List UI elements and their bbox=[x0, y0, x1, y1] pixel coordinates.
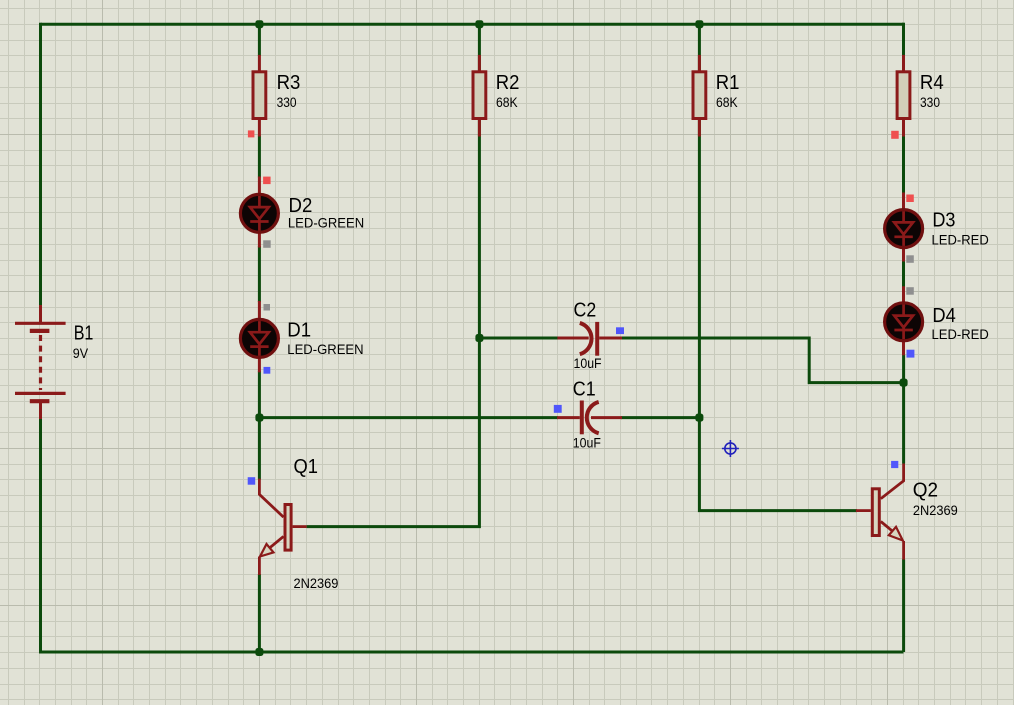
wire C2 right to Q2 collector net bbox=[621, 338, 904, 383]
wire R4 to D3 bbox=[902, 135, 905, 193]
marker grey D3 bottom bbox=[906, 255, 914, 262]
svg-text:LED-RED: LED-RED bbox=[932, 231, 989, 247]
svg-text:2N2369: 2N2369 bbox=[913, 502, 958, 518]
wire bottom rail bbox=[41, 651, 904, 654]
battery B1 bbox=[15, 305, 66, 419]
B1 dashed link bbox=[39, 335, 42, 390]
svg-text:68K: 68K bbox=[496, 94, 518, 110]
svg-text:9V: 9V bbox=[73, 345, 89, 361]
LED D1 bbox=[240, 301, 278, 372]
junction bottom rail Q1 emitter bbox=[255, 648, 263, 656]
B1 cell2 long plate bbox=[15, 392, 66, 395]
LED D2 bbox=[240, 177, 278, 248]
B1 cell1 short plate bbox=[30, 329, 50, 333]
wire Q1 emitter to bottom rail bbox=[258, 574, 261, 652]
marker blue Q1 collector bbox=[248, 477, 256, 485]
wire C1 right bbox=[621, 416, 699, 419]
marker blue C1 bbox=[554, 405, 562, 413]
svg-text:LED-GREEN: LED-GREEN bbox=[287, 341, 363, 357]
svg-text:C2: C2 bbox=[574, 298, 597, 321]
wire D3 to D4 bbox=[902, 260, 905, 287]
svg-text:2N2369: 2N2369 bbox=[294, 575, 339, 591]
resistor R3 bbox=[253, 55, 266, 137]
junction top rail R2 bbox=[475, 20, 483, 28]
marker blue D1 bottom bbox=[264, 367, 271, 374]
junction C1 left bbox=[255, 414, 263, 422]
wire D2 to D1 bbox=[258, 246, 261, 302]
wire R3 to D2 bbox=[258, 136, 261, 178]
svg-text:LED-GREEN: LED-GREEN bbox=[288, 215, 364, 231]
svg-text:D4: D4 bbox=[932, 304, 955, 327]
svg-text:Q2: Q2 bbox=[913, 478, 938, 501]
svg-text:R3: R3 bbox=[277, 71, 301, 94]
marker grey D1 top bbox=[264, 304, 271, 311]
svg-text:D1: D1 bbox=[287, 318, 311, 341]
wire branch1 top (rail to R3) bbox=[258, 24, 261, 56]
wire D4 to Q2 collector bbox=[902, 354, 905, 463]
svg-text:330: 330 bbox=[920, 94, 940, 110]
transistor Q2 bbox=[856, 464, 904, 560]
B1 top pin bbox=[39, 305, 42, 322]
svg-text:R4: R4 bbox=[920, 71, 944, 94]
marker blue C2 bbox=[616, 327, 624, 334]
wire left rail upper bbox=[39, 23, 42, 306]
svg-text:LED-RED: LED-RED bbox=[932, 326, 989, 342]
svg-text:10uF: 10uF bbox=[573, 434, 601, 450]
LED D4 bbox=[885, 286, 923, 355]
wire C2 left bbox=[479, 337, 558, 340]
marker blue Q2 collector bbox=[891, 461, 898, 468]
wire top rail bbox=[41, 23, 904, 26]
svg-text:B1: B1 bbox=[74, 322, 94, 345]
junction top rail R1 bbox=[695, 20, 703, 28]
wire Q2 emitter to bottom rail bbox=[902, 559, 905, 652]
svg-text:Q1: Q1 bbox=[294, 455, 319, 478]
marker red D2 pin bbox=[263, 177, 271, 185]
marker blue D4 bottom bbox=[907, 350, 915, 358]
B1 bottom pin bbox=[39, 402, 42, 419]
wire branch3 R1 vertical and Q2 base bbox=[699, 24, 857, 510]
marker red R3 pin bbox=[248, 130, 255, 137]
transistor Q1 bbox=[259, 479, 306, 575]
LED D3 bbox=[885, 193, 923, 262]
svg-text:R1: R1 bbox=[716, 71, 740, 94]
svg-text:68K: 68K bbox=[716, 94, 738, 110]
marker grey D2 bottom bbox=[263, 240, 271, 248]
wire C1 left bbox=[259, 416, 558, 419]
svg-text:330: 330 bbox=[277, 94, 297, 110]
junction top rail R3 bbox=[255, 20, 263, 28]
B1 cell2 short plate bbox=[30, 399, 50, 403]
resistor R4 bbox=[897, 55, 910, 137]
svg-text:10uF: 10uF bbox=[574, 355, 602, 371]
origin crosshair marker bbox=[722, 440, 739, 457]
marker red R4 pin bbox=[891, 131, 899, 139]
marker grey D4 top bbox=[906, 287, 914, 295]
wire left rail lower bbox=[39, 418, 42, 654]
resistor R2 bbox=[473, 55, 486, 137]
junction C1 right bbox=[695, 414, 703, 422]
junction D4 Q2 collector bbox=[900, 379, 908, 387]
wire D1 to Q1 collector bbox=[258, 371, 261, 480]
marker red D3 top bbox=[906, 195, 914, 203]
svg-text:D3: D3 bbox=[932, 209, 955, 232]
wire right branch rail to R4 bbox=[902, 23, 905, 58]
wire branch2 R2 vertical and Q1 base bbox=[307, 24, 480, 526]
resistor R1 bbox=[693, 55, 706, 137]
svg-text:C1: C1 bbox=[573, 377, 596, 400]
junction C2 left bbox=[475, 334, 483, 342]
svg-text:R2: R2 bbox=[496, 71, 520, 94]
capacitor C2 bbox=[557, 322, 622, 356]
B1 cell1 long plate bbox=[15, 322, 66, 325]
capacitor C1 bbox=[557, 401, 622, 435]
